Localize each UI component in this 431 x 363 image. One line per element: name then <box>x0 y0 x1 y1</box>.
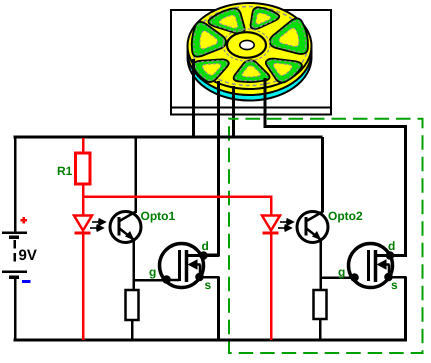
battery minus terminal label <box>22 280 31 283</box>
wire rail to R1 <box>82 138 85 153</box>
MOSFET Q1 substrate arrowhead <box>188 259 198 270</box>
wire opto2 emitter down <box>319 240 322 291</box>
MOSFET Q2 channel bar <box>374 250 378 282</box>
main wires <box>14 137 407 342</box>
disc hub <box>227 32 266 58</box>
svg-text:9V: 9V <box>19 247 37 264</box>
MOSFET Q1 gate lead <box>161 279 180 282</box>
wire opto2 to mosfet2 gate <box>321 276 370 279</box>
junction dot Q1 source <box>195 273 204 282</box>
svg-text:Opto1: Opto1 <box>141 209 176 223</box>
wire opto1 emitter down <box>132 240 135 291</box>
disc rim gray dashed <box>192 7 308 86</box>
svg-text:R1: R1 <box>57 164 73 178</box>
battery BT1 top cell long plate <box>2 231 27 234</box>
wire battery top to rail <box>14 137 17 233</box>
disc segment L <box>190 21 228 60</box>
LED D1 anode triangle <box>74 216 92 234</box>
wire mosfet1 source down <box>217 277 220 340</box>
MOSFET Q2 substrate arrowhead <box>377 259 387 270</box>
MOSFET Q1 gate bar <box>178 250 181 281</box>
junction dot Q2 source <box>384 273 393 282</box>
battery BT1 bottom cell short plate <box>9 275 19 279</box>
phototransistor Opto2 emitter arrowhead <box>312 231 322 241</box>
resistor (gate pulldown, right) <box>314 290 327 319</box>
battery BT1 9V <box>2 217 37 282</box>
svg-text:Opto2: Opto2 <box>328 209 363 223</box>
disc segment R <box>266 17 311 60</box>
wire opto1 collector <box>134 138 137 213</box>
junction dot Q1 gate <box>162 275 171 284</box>
LED D2 light emission arrow upper <box>278 219 293 231</box>
phototransistor Opto1 collector lead <box>120 212 137 222</box>
green dashed enclosure <box>229 119 423 353</box>
MOSFET Q1 substrate lead <box>195 263 201 266</box>
disc segment B <box>232 60 270 83</box>
wire LED1 anode <box>82 197 85 216</box>
phototransistor Opto1 base bar <box>118 217 121 236</box>
wire resistor1 to rail <box>131 319 134 340</box>
wire mosfet2 source lead <box>376 276 407 279</box>
red wiring <box>83 138 271 340</box>
junction dot Q2 drain <box>386 251 395 260</box>
LED D2 light emission arrow lower <box>278 227 287 229</box>
resistor (gate pulldown, left) <box>126 290 139 320</box>
disc segment BR <box>257 51 306 85</box>
disc segment TR <box>241 5 282 33</box>
disc bottom cyan layer <box>188 15 312 101</box>
wire opto1 to mosfet1 gate <box>134 279 181 282</box>
disc segment TL <box>205 6 256 40</box>
disc mid yellow rim <box>188 9 312 95</box>
wire sensor 4 <box>265 78 406 256</box>
MOSFET Q1 drain lead <box>187 254 220 257</box>
svg-text:s: s <box>205 278 212 292</box>
battery plus terminal label <box>20 217 27 224</box>
MOSFET Q2 gate bar <box>367 250 370 281</box>
LED D1 cathode bar <box>75 232 91 235</box>
wire LED2 cathode down <box>270 232 273 340</box>
MOSFET Q2 body circle <box>338 239 406 292</box>
wire opto2 collector drop <box>321 137 324 212</box>
battery BT1 bottom cell long plate <box>2 270 27 273</box>
junction dot Q2 gate <box>350 273 359 282</box>
disc top face <box>188 3 312 89</box>
wire battery bottom to rail <box>14 278 17 341</box>
svg-text:g: g <box>149 265 156 279</box>
LED D1 light emission arrow lower <box>90 227 99 229</box>
MOSFET Q2 substrate-source link <box>388 265 391 278</box>
phototransistor Opto1 body circle <box>110 209 175 243</box>
wire R1 to LED1 / LED2 feed <box>83 184 271 216</box>
resistor R1 body <box>57 153 90 184</box>
battery BT1 top cell short plate <box>9 235 19 239</box>
wire mosfet2 source to rail <box>404 277 407 342</box>
wire LED1 cathode down <box>82 232 85 340</box>
wire top rail <box>14 136 323 139</box>
LED D2 cathode bar <box>263 232 279 235</box>
phototransistor Opto1 emitter lead <box>120 229 134 240</box>
MOSFET Q2 drain lead <box>376 254 407 257</box>
disc segment BL <box>189 52 236 84</box>
svg-text:d: d <box>388 239 395 253</box>
MOSFET Q1 channel bar <box>185 250 189 282</box>
svg-text:d: d <box>202 239 209 253</box>
battery BT1 dashed multi-cell link <box>13 240 16 263</box>
wire sensor 3 <box>232 86 235 139</box>
encoder housing box <box>171 10 331 115</box>
phototransistor Opto2 collector lead <box>307 212 324 222</box>
phototransistor Opto1 emitter arrowhead <box>125 231 135 241</box>
MOSFET Q1 body circle <box>149 239 219 292</box>
sensor wires from disc <box>194 59 406 256</box>
MOSFET Q2 substrate lead <box>384 263 390 266</box>
disc center hole <box>240 40 254 49</box>
encoder housing sensor slot line <box>171 107 331 109</box>
encoder disc <box>188 3 312 101</box>
wire resistor2 to rail <box>319 319 322 340</box>
phototransistor Opto2 emitter lead <box>307 229 321 240</box>
wire mosfet1 source lead <box>187 276 220 279</box>
junction dot Q1 drain <box>199 251 208 260</box>
MOSFET Q1 substrate-source link <box>199 265 202 278</box>
wire sensor 1 <box>192 59 195 139</box>
phototransistor Opto2 body circle <box>297 209 363 243</box>
wire sensor 2 <box>203 81 219 255</box>
LED D1 light emission arrow upper <box>90 219 105 231</box>
disc hub dashed ring <box>223 29 270 61</box>
svg-text:s: s <box>391 278 398 292</box>
LED D2 anode triangle <box>262 216 280 234</box>
svg-text:g: g <box>338 265 345 279</box>
wire bottom rail <box>14 339 407 342</box>
phototransistor Opto2 base bar <box>305 217 308 236</box>
